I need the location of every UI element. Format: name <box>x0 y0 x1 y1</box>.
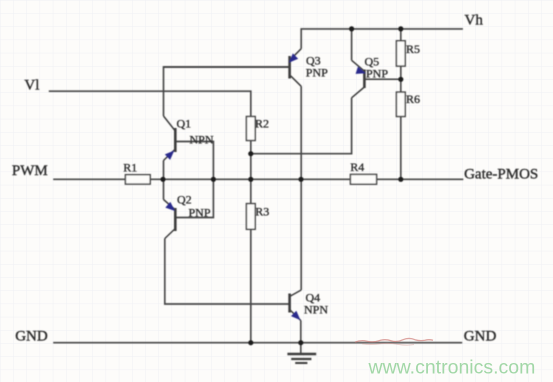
wire Vl line <box>49 91 251 116</box>
svg-text:PNP: PNP <box>366 67 388 81</box>
svg-text:R2: R2 <box>255 117 269 131</box>
svg-text:R4: R4 <box>350 160 364 174</box>
transistor Q3 PNP <box>164 49 302 87</box>
wire PWM main horizontal line <box>53 178 463 180</box>
resistor R4 <box>350 174 376 184</box>
node R6 bottom on main line <box>398 177 403 182</box>
svg-text:NPN: NPN <box>304 303 328 317</box>
svg-text:Vh: Vh <box>465 13 484 29</box>
svg-text:PWM: PWM <box>12 163 48 179</box>
svg-text:R1: R1 <box>123 161 137 175</box>
resistor R5 <box>396 41 405 66</box>
resistor R2 <box>246 117 255 141</box>
transistor Q2 PNP <box>164 200 176 239</box>
wire Q5 collector to R2/R3 node <box>251 98 352 154</box>
node R2/R3 on main line <box>248 177 253 182</box>
wire Q1 emitter to node A <box>163 161 165 180</box>
node bases tie <box>211 177 216 182</box>
wire GND bottom line <box>53 342 462 344</box>
wire Q2 collector to Q4 base <box>165 239 289 305</box>
node A (R1 output / emitters) <box>160 177 165 182</box>
svg-text:PNP: PNP <box>306 66 328 80</box>
resistor R1 <box>125 175 150 184</box>
node R3 bottom on GND line <box>248 340 253 345</box>
svg-text:Q2: Q2 <box>177 193 192 207</box>
wire Q5 emitter <box>351 29 353 60</box>
transistor Q4 NPN <box>290 290 302 321</box>
svg-text:Q1: Q1 <box>177 117 192 131</box>
resistor R3 <box>246 204 255 230</box>
node R2 bottom / Q5 collector <box>248 151 253 156</box>
svg-text:GND: GND <box>464 329 497 345</box>
red watermark scribble on GND line <box>355 338 433 342</box>
wire Q1 collector to Q3 base <box>164 67 289 116</box>
node Q5 emitter on Vh rail <box>349 26 354 31</box>
svg-text:R5: R5 <box>406 42 420 56</box>
resistor R6 <box>396 92 405 116</box>
svg-text:NPN: NPN <box>190 133 214 147</box>
node R5/R6 junction <box>398 77 403 82</box>
wire R2-R3 column <box>250 141 252 343</box>
node R5 top on Vh rail <box>398 26 403 31</box>
wire Vh rail <box>301 29 463 49</box>
svg-text:Vl: Vl <box>24 78 39 94</box>
wire node A to Q2 emitter <box>163 179 165 199</box>
wire Q4 emitter to GND <box>300 321 302 343</box>
wire R5-R6 column <box>400 29 402 179</box>
ground <box>287 354 316 363</box>
svg-text:www.cntronics.com: www.cntronics.com <box>368 357 536 379</box>
transistor Q5 PNP <box>352 60 401 98</box>
svg-text:Gate-PMOS: Gate-PMOS <box>464 167 538 183</box>
svg-text:PNP: PNP <box>189 206 211 220</box>
svg-text:R3: R3 <box>255 205 269 219</box>
svg-text:GND: GND <box>15 329 48 345</box>
svg-text:R6: R6 <box>406 92 420 106</box>
transistor Q1 NPN <box>164 116 176 161</box>
wire Q1/Q2 base tie <box>176 142 213 218</box>
node Q4 emitter on GND line <box>298 340 303 345</box>
wire Q3 collector / Q4 collector vertical <box>300 86 302 290</box>
wire ground lead <box>300 343 302 353</box>
node Q3/Q4 collector on main line <box>298 177 303 182</box>
